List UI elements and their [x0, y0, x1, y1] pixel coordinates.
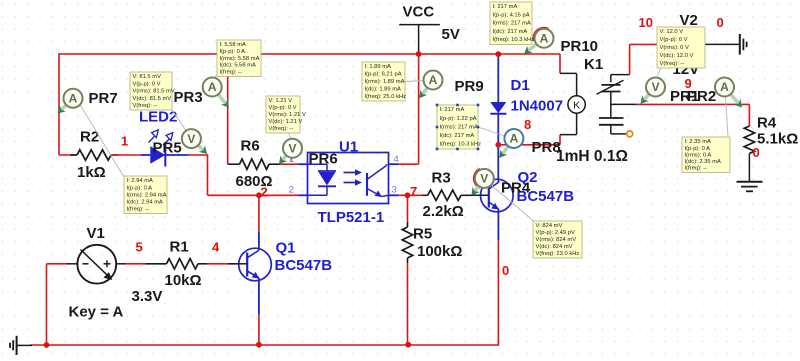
leader line box to PR8: [478, 127, 505, 136]
svg-text:R3: R3: [432, 170, 451, 187]
node 9 label: [685, 76, 692, 91]
transistor Q2 BC547B: [472, 179, 513, 240]
measurement box for PR10: [490, 2, 534, 45]
wire: net 2 vertical drop from LED2 row: [207, 154, 209, 195]
svg-text:PR3: PR3: [174, 89, 203, 106]
junction: R5 leg on bottom rail: [405, 342, 411, 348]
leader line box to PR1: [656, 68, 661, 79]
svg-text:I: 1.89 mA: I: 1.89 mA: [365, 64, 392, 70]
value label 680&#937; for R6: [236, 173, 273, 190]
svg-text:V(p-p): 0 V: V(p-p): 0 V: [660, 37, 688, 43]
relay K1 coil: [560, 54, 585, 135]
svg-text:V(freq): 23.0 kHz: V(freq): 23.0 kHz: [536, 251, 580, 257]
svg-text:I(p-p): 1.22 pA: I(p-p): 1.22 pA: [440, 116, 477, 122]
value label BC547B for Q2: [517, 188, 575, 205]
junction: net 8 at D1 cathode: [495, 142, 501, 148]
svg-text:2.2kΩ: 2.2kΩ: [423, 203, 464, 220]
svg-text:V1: V1: [87, 225, 105, 242]
wire: left rail from VCC rail down to R2 row: [58, 53, 60, 155]
probe PR7 ammeter: [58, 89, 83, 114]
ground below R4: [737, 182, 763, 192]
svg-text:A: A: [429, 73, 438, 87]
svg-text:I: 2.94 mA: I: 2.94 mA: [127, 178, 154, 184]
value label 10k&#937; for R1: [165, 272, 202, 289]
svg-text:I(freq): 25.0 kHz: I(freq): 25.0 kHz: [365, 94, 407, 100]
svg-text:I(dc): 1.89 mA: I(dc): 1.89 mA: [365, 87, 402, 93]
wire: D1 cathode to Q2 collector: [497, 145, 499, 179]
svg-text:PR4: PR4: [501, 180, 531, 197]
label PR5: [153, 140, 182, 157]
pin 1 label of U1: [289, 154, 294, 165]
svg-text:I(freq): --: I(freq): --: [127, 207, 150, 213]
probe PR2 ammeter: [715, 78, 742, 108]
ground at bottom left: [10, 336, 32, 355]
junction: R6 branch on top rail: [225, 51, 231, 57]
label VCC: [403, 4, 435, 21]
svg-text:I(rms): 217 mA: I(rms): 217 mA: [440, 124, 478, 130]
ground at V2: [740, 34, 747, 55]
resistor R3: [408, 190, 473, 200]
svg-text:0: 0: [753, 145, 760, 160]
wire: LED2 cathode to corner: [189, 154, 208, 156]
node 4 label: [212, 240, 220, 255]
svg-text:A: A: [510, 132, 519, 146]
wire: net 10 relay contact to V2: [630, 44, 658, 74]
label PR1: [670, 88, 699, 105]
svg-text:I(freq): --: I(freq): --: [220, 70, 243, 76]
svg-text:PR6: PR6: [309, 151, 338, 168]
resistor R6: [240, 159, 280, 169]
svg-text:PR5: PR5: [153, 140, 182, 157]
svg-text:A: A: [540, 31, 549, 45]
LED LED2: [141, 130, 189, 167]
probe PR4 voltmeter: [472, 169, 494, 196]
power VCC symbol: [399, 25, 440, 54]
svg-text:V: 12.0 V: V: 12.0 V: [660, 29, 684, 35]
svg-text:TLP521-1: TLP521-1: [318, 209, 385, 226]
svg-text:PR8: PR8: [532, 139, 561, 156]
wire: U1 pin 3 to net 7 junction: [399, 194, 408, 196]
node 5 label: [136, 240, 143, 255]
wire: VCC top rail net segment: [59, 53, 560, 55]
svg-text:V: V: [651, 80, 659, 94]
svg-text:V(rms): 81.5 mV: V(rms): 81.5 mV: [133, 89, 175, 95]
svg-text:0: 0: [502, 263, 509, 278]
value label 1mH 0.1&#937; for K1: [556, 148, 628, 165]
value label 1k&#937; for R2: [77, 164, 106, 181]
svg-text:I(p-p): 0 A: I(p-p): 0 A: [220, 49, 246, 55]
junction: V1 leg on bottom rail: [44, 342, 50, 348]
op-amp U1 optocoupler TLP521-1: [299, 153, 399, 204]
svg-text:VCC: VCC: [403, 4, 435, 21]
node 1 label: [121, 134, 128, 149]
svg-text:3.3V: 3.3V: [132, 288, 163, 305]
wire: V2 to ground: [700, 43, 739, 45]
label Q2: [518, 169, 538, 186]
label K1: [584, 56, 603, 73]
svg-text:5: 5: [136, 240, 143, 255]
node 0 label near R4: [753, 145, 760, 160]
value label 5.1k&#937; for R4: [757, 131, 798, 148]
svg-text:I(freq): 10.3 kHz: I(freq): 10.3 kHz: [440, 142, 482, 148]
probe PR10 ammeter: [524, 28, 554, 54]
svg-text:V: 81.5 mV: V: 81.5 mV: [133, 74, 162, 80]
wire: R6 to U1 pin 1: [280, 163, 299, 165]
svg-text:R5: R5: [413, 226, 432, 243]
svg-text:I(rms): 0 A: I(rms): 0 A: [685, 152, 712, 158]
value label BC547B for Q1: [275, 257, 333, 274]
svg-text:1kΩ: 1kΩ: [77, 164, 106, 181]
svg-text:V(freq): --: V(freq): --: [133, 103, 158, 109]
svg-text:I(dc): 5.58 mA: I(dc): 5.58 mA: [220, 63, 257, 69]
value label 100k&#937; for R5: [417, 243, 462, 260]
wire: bottom ground rail: [30, 340, 499, 345]
junction: Q1 emitter on bottom rail: [256, 342, 262, 348]
wire: net 1 segment R2 to LED2: [111, 154, 141, 156]
node 0 label near V2: [717, 15, 724, 30]
svg-text:I: 5.58 mA: I: 5.58 mA: [220, 42, 247, 48]
svg-text:A: A: [69, 92, 78, 106]
probe PR1 voltmeter: [641, 78, 666, 104]
wire: net 9 relay to R4: [636, 104, 749, 126]
label PR7: [89, 90, 118, 107]
relay K1 contact: [597, 75, 637, 137]
value label 2.2k&#937; for R3: [423, 203, 464, 220]
svg-text:D1: D1: [511, 77, 530, 94]
probe PR9 ammeter: [419, 71, 442, 99]
label U1: [339, 139, 358, 156]
measurement box for PR6: [266, 96, 306, 133]
resistor R1: [146, 259, 208, 269]
label R1: [170, 239, 189, 256]
svg-text:1mH 0.1Ω: 1mH 0.1Ω: [556, 148, 628, 165]
svg-text:I(dc): 2.35 mA: I(dc): 2.35 mA: [685, 159, 722, 165]
svg-text:K: K: [573, 100, 580, 112]
svg-text:V: V: [288, 141, 296, 155]
svg-text:10: 10: [639, 15, 653, 30]
label PR2: [687, 88, 716, 105]
svg-text:I(dc): 2.94 mA: I(dc): 2.94 mA: [127, 199, 164, 205]
wire: net 2 to Q1 collector: [258, 195, 260, 250]
svg-text:I: 2.35 mA: I: 2.35 mA: [685, 139, 712, 145]
leader line box to PR2: [726, 96, 729, 137]
measurement box for PR7: [124, 176, 167, 214]
node 2 label: [261, 185, 268, 200]
svg-text:I: 217 mA: I: 217 mA: [440, 107, 465, 113]
label R4: [757, 115, 777, 132]
label V2: [680, 12, 698, 29]
label R2: [80, 129, 99, 146]
junction: net 2 at Q1 collector: [256, 192, 262, 198]
diode D1 1N4007: [490, 102, 506, 145]
probe PR3 ammeter: [203, 78, 229, 108]
svg-text:7: 7: [410, 184, 417, 199]
svg-text:4: 4: [394, 154, 399, 165]
wire: U1 pin 4 to VCC branch: [399, 54, 419, 164]
svg-text:A: A: [208, 80, 217, 94]
svg-text:8: 8: [524, 117, 531, 132]
label D1: [511, 77, 530, 94]
svg-text:I(rms): 217 mA: I(rms): 217 mA: [493, 21, 531, 27]
svg-text:V(dc): 1.21 V: V(dc): 1.21 V: [269, 119, 303, 125]
junction: net 7 at R3 R5 U1: [405, 192, 411, 198]
wire: Q1 emitter to bottom rail: [258, 315, 260, 345]
leader line box to PR7: [79, 103, 124, 177]
value label 3.3V for V1: [132, 288, 163, 305]
leader line box to PR3: [214, 74, 218, 80]
node 7 label: [410, 184, 417, 199]
probe PR8 ammeter: [499, 129, 523, 158]
svg-text:10kΩ: 10kΩ: [165, 272, 202, 289]
svg-text:V(freq): --: V(freq): --: [269, 126, 294, 132]
wire: R6 left lead: [228, 163, 240, 165]
measurement box for PR3: [217, 40, 261, 77]
measurement box for PR4: [533, 221, 582, 258]
svg-text:R6: R6: [241, 138, 260, 155]
svg-text:I(rms): 1.89 mA: I(rms): 1.89 mA: [365, 79, 405, 85]
leader line box to PR5: [172, 110, 187, 132]
svg-text:V(rms): 0 V: V(rms): 0 V: [660, 45, 689, 51]
svg-text:V: V: [187, 132, 195, 146]
label V1: [87, 225, 105, 242]
svg-text:5.1kΩ: 5.1kΩ: [757, 131, 798, 148]
wire: V1 to R1: [126, 263, 146, 265]
svg-text:V: V: [480, 172, 488, 186]
wire: VCC rail branch down to R6: [227, 54, 229, 164]
svg-text:I(rms): 2.94 mA: I(rms): 2.94 mA: [127, 192, 167, 198]
label PR6: [309, 151, 338, 168]
svg-text:V2: V2: [680, 12, 698, 29]
svg-text:I(p-p): 4.15 pA: I(p-p): 4.15 pA: [493, 13, 530, 19]
measurement box for PR9: [362, 62, 406, 101]
svg-text:K1: K1: [584, 56, 603, 73]
leader line box to PR4: [491, 185, 535, 222]
svg-text:V(dc): 824 mV: V(dc): 824 mV: [536, 244, 573, 250]
wire: net 8 row to relay coil: [498, 135, 560, 145]
svg-text:1: 1: [121, 134, 128, 149]
label R5: [413, 226, 432, 243]
value label 1N4007 for D1: [511, 98, 564, 115]
voltage source V2 value label 12V: [673, 61, 700, 78]
svg-text:I(p-p): 6.21 pA: I(p-p): 6.21 pA: [365, 72, 402, 78]
svg-text:100kΩ: 100kΩ: [417, 243, 462, 260]
svg-text:I(dc): 217 mA: I(dc): 217 mA: [440, 133, 475, 139]
svg-text:PR2: PR2: [687, 88, 716, 105]
label R6: [241, 138, 260, 155]
leader line box to PR6: [289, 133, 292, 162]
wire: VCC rail to D1 anode: [497, 54, 499, 102]
svg-text:R1: R1: [170, 239, 189, 256]
svg-text:V(p-p): 0 V: V(p-p): 0 V: [133, 81, 161, 87]
svg-text:Key = A: Key = A: [69, 304, 124, 321]
label PR8: [532, 139, 561, 156]
pin 3 label of U1: [392, 185, 397, 196]
label Q1: [276, 240, 296, 257]
junction: D1 branch on top rail: [495, 51, 501, 57]
measurement box for PR8 selected: [436, 104, 481, 151]
wire: V1 left leg down: [46, 264, 48, 345]
svg-text:V: 1.21 V: V: 1.21 V: [269, 98, 293, 104]
pin 2 label of U1: [289, 185, 294, 196]
svg-text:I(dc): 217 mA: I(dc): 217 mA: [493, 29, 528, 35]
wire: Q2 emitter to bottom rail: [497, 240, 499, 345]
node 0 label near Q2 emitter: [502, 263, 509, 278]
svg-text:U1: U1: [339, 139, 358, 156]
node 8 label: [524, 117, 531, 132]
probe PR6 voltmeter: [279, 139, 302, 164]
svg-text:PR7: PR7: [89, 90, 118, 107]
svg-text:I: 217 mA: I: 217 mA: [493, 4, 518, 10]
node 10 label: [639, 15, 653, 30]
label R3: [432, 170, 451, 187]
pin 4 label of U1: [394, 154, 399, 165]
svg-text:V(rms): 824 mV: V(rms): 824 mV: [536, 237, 577, 243]
svg-text:Q1: Q1: [276, 240, 296, 257]
resistor R5: [402, 195, 412, 344]
svg-text:V: 824 mV: V: 824 mV: [536, 223, 563, 229]
label PR4: [501, 180, 531, 197]
svg-text:2: 2: [289, 185, 294, 196]
label PR3: [174, 89, 203, 106]
measurement box for PR1: [657, 27, 705, 68]
svg-text:BC547B: BC547B: [275, 257, 333, 274]
value label TLP521-1 for U1: [318, 209, 385, 226]
resistor R2: [77, 150, 118, 160]
svg-text:PR9: PR9: [455, 78, 484, 95]
svg-text:3: 3: [392, 185, 397, 196]
resistor R4: [744, 126, 754, 154]
svg-text:I(p-p): 0 A: I(p-p): 0 A: [685, 146, 711, 152]
svg-text:V(rms): 1.21 V: V(rms): 1.21 V: [269, 112, 306, 118]
svg-text:680Ω: 680Ω: [236, 173, 273, 190]
svg-text:V(p-p): 2.49 pV: V(p-p): 2.49 pV: [536, 230, 575, 236]
key label Key = A for V1: [69, 304, 124, 321]
svg-text:5V: 5V: [442, 26, 460, 43]
label PR9: [455, 78, 484, 95]
leader line box to PR9: [405, 81, 424, 82]
svg-text:I(rms): 5.58 mA: I(rms): 5.58 mA: [220, 56, 260, 62]
wire: net 2 row to U1 pin 2: [208, 194, 299, 196]
svg-text:1N4007: 1N4007: [511, 98, 564, 115]
svg-text:A: A: [720, 80, 729, 94]
value label 5V for VCC: [442, 26, 460, 43]
svg-text:V(p-p): 0 V: V(p-p): 0 V: [269, 105, 297, 111]
voltage source V1: [47, 245, 127, 284]
transistor Q1 BC547B: [237, 248, 272, 315]
wire: R4 to ground: [748, 154, 750, 182]
junction: VCC stub on top rail: [416, 51, 422, 57]
svg-text:I(p-p): 0 A: I(p-p): 0 A: [127, 185, 153, 191]
label PR10: [561, 38, 599, 55]
svg-text:V(dc): 81.5 mV: V(dc): 81.5 mV: [133, 96, 172, 102]
svg-text:LED2: LED2: [139, 109, 177, 126]
label LED2: [139, 109, 177, 126]
svg-text:0: 0: [717, 15, 724, 30]
wire: R2 left lead: [59, 154, 77, 156]
svg-text:V(dc): 12.0 V: V(dc): 12.0 V: [660, 53, 694, 59]
svg-text:4: 4: [212, 240, 220, 255]
wire: R1 to Q1 base: [207, 263, 237, 265]
measurement box for PR5: [130, 72, 175, 110]
svg-text:V(freq): --: V(freq): --: [660, 61, 685, 67]
probe PR5 voltmeter: [182, 129, 207, 154]
svg-text:I(freq): 10.3 kHz: I(freq): 10.3 kHz: [493, 37, 535, 43]
measurement box for PR2: [682, 137, 730, 173]
svg-text:R4: R4: [757, 115, 777, 132]
svg-text:PR10: PR10: [561, 38, 599, 55]
svg-text:I(freq): --: I(freq): --: [685, 166, 708, 172]
